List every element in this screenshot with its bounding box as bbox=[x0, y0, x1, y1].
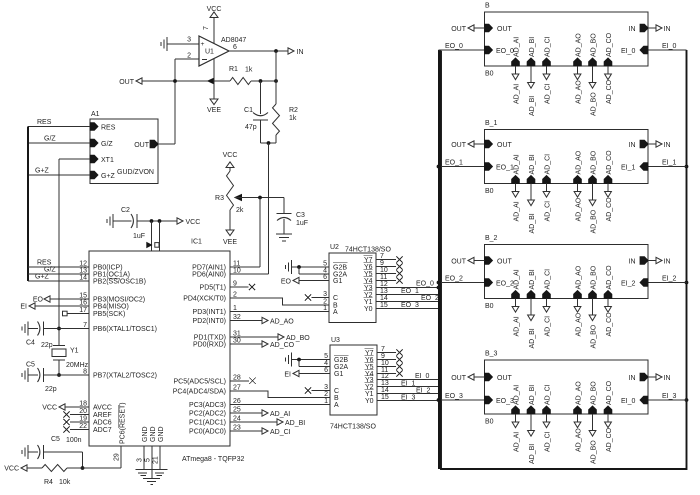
svg-text:AD_AI: AD_AI bbox=[514, 154, 521, 174]
svg-text:PD2(INT0): PD2(INT0) bbox=[193, 318, 226, 325]
svg-text:25: 25 bbox=[233, 407, 241, 414]
svg-text:24: 24 bbox=[233, 416, 241, 423]
svg-text:IN: IN bbox=[629, 26, 636, 33]
svg-text:PB4(MISO): PB4(MISO) bbox=[93, 304, 129, 311]
svg-text:B0: B0 bbox=[485, 419, 494, 426]
svg-text:AD_AO: AD_AO bbox=[576, 428, 583, 452]
svg-text:12: 12 bbox=[380, 281, 388, 288]
svg-text:EO_0: EO_0 bbox=[496, 48, 514, 55]
svg-text:C: C bbox=[333, 295, 338, 302]
svg-text:15: 15 bbox=[381, 394, 389, 401]
svg-text:2k: 2k bbox=[236, 207, 244, 214]
svg-text:VCC: VCC bbox=[42, 405, 57, 412]
svg-text:AD_AI: AD_AI bbox=[514, 269, 521, 289]
svg-text:23: 23 bbox=[233, 425, 241, 432]
svg-text:Y0: Y0 bbox=[365, 398, 374, 405]
svg-text:5: 5 bbox=[324, 353, 328, 360]
svg-text:AD_AO: AD_AO bbox=[576, 381, 583, 405]
svg-text:16: 16 bbox=[79, 300, 87, 307]
svg-text:AD_BO: AD_BO bbox=[591, 265, 598, 289]
svg-text:EI: EI bbox=[20, 304, 27, 311]
svg-text:AD_BI: AD_BI bbox=[529, 444, 536, 464]
svg-text:AD_CI: AD_CI bbox=[545, 201, 552, 222]
svg-text:EO_1: EO_1 bbox=[445, 160, 463, 167]
svg-text:EO_0: EO_0 bbox=[445, 43, 463, 50]
svg-text:PC4(ADC4/SDA): PC4(ADC4/SDA) bbox=[173, 389, 226, 396]
svg-text:A: A bbox=[333, 309, 338, 316]
svg-text:9: 9 bbox=[381, 353, 385, 360]
svg-text:EO: EO bbox=[33, 297, 44, 304]
svg-text:5: 5 bbox=[145, 458, 152, 462]
svg-text:IN: IN bbox=[664, 26, 671, 33]
svg-text:10: 10 bbox=[233, 268, 241, 275]
svg-text:EO_2: EO_2 bbox=[496, 281, 514, 288]
svg-text:AD_CO: AD_CO bbox=[606, 265, 613, 290]
svg-text:PC0(ADC0): PC0(ADC0) bbox=[189, 429, 226, 436]
svg-text:11: 11 bbox=[233, 261, 240, 268]
svg-text:PD5(T1): PD5(T1) bbox=[200, 285, 226, 292]
svg-text:EI_1: EI_1 bbox=[401, 381, 416, 388]
svg-text:13: 13 bbox=[381, 380, 389, 387]
svg-text:AD_CO: AD_CO bbox=[606, 380, 613, 405]
svg-text:OUT: OUT bbox=[497, 259, 513, 266]
svg-text:PC1(ADC1): PC1(ADC1) bbox=[189, 420, 226, 427]
svg-text:EI_2: EI_2 bbox=[662, 276, 677, 283]
svg-text:10: 10 bbox=[381, 360, 389, 367]
svg-text:IN: IN bbox=[664, 375, 671, 382]
svg-text:PC5(ADC5/SCL): PC5(ADC5/SCL) bbox=[173, 378, 226, 385]
svg-text:Y1: Y1 bbox=[365, 391, 374, 398]
svg-text:B0: B0 bbox=[485, 71, 494, 78]
svg-text:Y5: Y5 bbox=[364, 271, 373, 278]
svg-text:VEE: VEE bbox=[207, 107, 221, 114]
svg-text:B_1: B_1 bbox=[485, 120, 498, 127]
svg-text:AD_AI: AD_AI bbox=[514, 385, 521, 405]
svg-text:AD_BI: AD_BI bbox=[285, 420, 305, 427]
svg-text:IN: IN bbox=[664, 142, 671, 149]
svg-text:7: 7 bbox=[381, 346, 385, 353]
svg-text:2: 2 bbox=[187, 53, 191, 60]
svg-text:OUT: OUT bbox=[451, 259, 467, 266]
svg-text:G+Z: G+Z bbox=[101, 173, 116, 180]
svg-text:G+Z: G+Z bbox=[35, 168, 50, 175]
svg-text:ADC6: ADC6 bbox=[93, 420, 112, 427]
svg-text:2: 2 bbox=[233, 292, 237, 299]
svg-text:PD0(RXD): PD0(RXD) bbox=[193, 342, 226, 349]
svg-text:GUD/ZVON: GUD/ZVON bbox=[117, 169, 154, 176]
svg-text:19: 19 bbox=[79, 416, 87, 423]
svg-text:AD_BI: AD_BI bbox=[529, 96, 536, 116]
svg-text:3: 3 bbox=[187, 37, 191, 44]
svg-text:R2: R2 bbox=[289, 107, 298, 114]
svg-text:VCC: VCC bbox=[223, 152, 238, 159]
svg-text:IC1: IC1 bbox=[191, 239, 202, 246]
svg-text:R1: R1 bbox=[229, 66, 238, 73]
svg-text:28: 28 bbox=[233, 374, 241, 381]
svg-text:C5: C5 bbox=[51, 436, 60, 443]
svg-text:3: 3 bbox=[137, 458, 144, 462]
svg-text:13: 13 bbox=[380, 288, 388, 295]
svg-text:EO_1: EO_1 bbox=[496, 165, 514, 172]
svg-text:PD7(AIN1): PD7(AIN1) bbox=[192, 265, 226, 272]
svg-text:18: 18 bbox=[79, 401, 87, 408]
svg-text:100n: 100n bbox=[66, 437, 82, 444]
svg-text:RES: RES bbox=[101, 125, 116, 132]
svg-text:XT1: XT1 bbox=[101, 157, 114, 164]
svg-text:PB5(SCK): PB5(SCK) bbox=[93, 311, 125, 318]
svg-text:AD_AI: AD_AI bbox=[514, 316, 521, 336]
svg-text:AD_BI: AD_BI bbox=[529, 213, 536, 233]
svg-text:EI_2: EI_2 bbox=[416, 388, 431, 395]
svg-text:AD_CO: AD_CO bbox=[606, 312, 613, 337]
svg-text:B: B bbox=[485, 3, 490, 10]
svg-text:PD1(TXD): PD1(TXD) bbox=[194, 335, 226, 342]
svg-text:14: 14 bbox=[380, 295, 388, 302]
svg-text:PB6(XTAL1/TOSC1): PB6(XTAL1/TOSC1) bbox=[93, 326, 157, 333]
svg-text:AD_BI: AD_BI bbox=[529, 328, 536, 348]
svg-text:29: 29 bbox=[114, 453, 121, 461]
svg-text:G+Z: G+Z bbox=[35, 274, 50, 281]
svg-text:AD_AI: AD_AI bbox=[270, 411, 290, 418]
svg-text:AD_CI: AD_CI bbox=[545, 83, 552, 104]
svg-text:AD_BI: AD_BI bbox=[529, 37, 536, 57]
svg-text:10k: 10k bbox=[59, 479, 71, 486]
svg-text:Y3: Y3 bbox=[365, 377, 374, 384]
svg-text:AD_AO: AD_AO bbox=[270, 319, 294, 326]
svg-text:IN: IN bbox=[629, 259, 636, 266]
svg-text:4: 4 bbox=[324, 360, 328, 367]
svg-text:AD_AI: AD_AI bbox=[514, 84, 521, 104]
svg-text:EI_3: EI_3 bbox=[401, 395, 416, 402]
svg-text:AD_CI: AD_CI bbox=[545, 269, 552, 290]
svg-text:A1: A1 bbox=[91, 111, 100, 118]
svg-text:AD_AI: AD_AI bbox=[514, 37, 521, 57]
svg-text:PC3(ADC3): PC3(ADC3) bbox=[189, 402, 226, 409]
svg-text:G/Z: G/Z bbox=[44, 267, 56, 274]
svg-text:GND: GND bbox=[158, 426, 165, 442]
svg-text:22p: 22p bbox=[41, 342, 53, 349]
svg-text:OUT: OUT bbox=[451, 26, 467, 33]
svg-text:PC6(RESET): PC6(RESET) bbox=[120, 402, 127, 444]
svg-text:14: 14 bbox=[381, 387, 389, 394]
svg-text:AD_AO: AD_AO bbox=[576, 265, 583, 289]
svg-text:22: 22 bbox=[79, 423, 87, 430]
svg-text:IN: IN bbox=[664, 259, 671, 266]
svg-text:AD_CI: AD_CI bbox=[545, 36, 552, 57]
svg-text:8: 8 bbox=[83, 369, 87, 376]
svg-text:AD_BO: AD_BO bbox=[591, 92, 598, 116]
svg-text:OUT: OUT bbox=[451, 142, 467, 149]
svg-text:U2: U2 bbox=[330, 244, 339, 251]
svg-text:1: 1 bbox=[323, 305, 327, 312]
svg-text:9: 9 bbox=[233, 281, 237, 288]
svg-text:15: 15 bbox=[380, 302, 388, 309]
svg-text:Y1: Y1 bbox=[70, 348, 79, 355]
svg-text:22p: 22p bbox=[45, 386, 57, 393]
svg-text:EI_2: EI_2 bbox=[621, 281, 636, 288]
svg-text:AD_CO: AD_CO bbox=[606, 427, 613, 452]
svg-text:Y6: Y6 bbox=[365, 357, 374, 364]
svg-text:1uF: 1uF bbox=[133, 233, 145, 240]
svg-text:PB3(MOSI/OC2): PB3(MOSI/OC2) bbox=[93, 297, 145, 304]
svg-text:AD_CI: AD_CI bbox=[545, 316, 552, 337]
svg-text:EI_0: EI_0 bbox=[621, 48, 636, 55]
svg-text:EI: EI bbox=[284, 372, 291, 379]
svg-text:1: 1 bbox=[233, 305, 237, 312]
svg-text:Y4: Y4 bbox=[364, 278, 373, 285]
svg-text:B_2: B_2 bbox=[485, 235, 498, 242]
svg-text:32: 32 bbox=[233, 314, 241, 321]
svg-text:B0: B0 bbox=[485, 303, 494, 310]
svg-text:6: 6 bbox=[323, 274, 327, 281]
svg-text:OUT: OUT bbox=[134, 142, 150, 149]
svg-text:PB1(OC1A): PB1(OC1A) bbox=[93, 272, 130, 279]
svg-text:AD_BO: AD_BO bbox=[591, 440, 598, 464]
svg-text:G/Z: G/Z bbox=[101, 141, 113, 148]
svg-text:17: 17 bbox=[79, 307, 87, 314]
svg-text:OUT: OUT bbox=[497, 142, 513, 149]
svg-text:AD_AO: AD_AO bbox=[576, 80, 583, 104]
svg-text:AD_AI: AD_AI bbox=[514, 432, 521, 452]
svg-text:IN: IN bbox=[297, 49, 304, 56]
svg-text:EO_2: EO_2 bbox=[445, 276, 463, 283]
svg-text:AVCC: AVCC bbox=[93, 405, 112, 412]
svg-text:AD_AO: AD_AO bbox=[576, 150, 583, 174]
svg-text:6: 6 bbox=[233, 44, 237, 51]
svg-text:AD_BO: AD_BO bbox=[591, 150, 598, 174]
svg-text:AD8047: AD8047 bbox=[221, 37, 246, 44]
svg-text:ADC7: ADC7 bbox=[93, 427, 112, 434]
svg-text:14: 14 bbox=[79, 275, 87, 282]
svg-text:3: 3 bbox=[324, 384, 328, 391]
svg-text:G2A: G2A bbox=[334, 364, 348, 371]
svg-text:RES: RES bbox=[37, 119, 52, 126]
svg-text:G2B: G2B bbox=[334, 357, 348, 364]
svg-text:VCC: VCC bbox=[4, 466, 19, 473]
svg-text:PB0(ICP): PB0(ICP) bbox=[93, 265, 123, 272]
svg-text:AD_CO: AD_CO bbox=[606, 79, 613, 104]
svg-text:AD_CO: AD_CO bbox=[606, 197, 613, 222]
svg-text:OUT: OUT bbox=[497, 375, 513, 382]
svg-text:AD_BI: AD_BI bbox=[529, 385, 536, 405]
svg-text:21: 21 bbox=[153, 456, 160, 464]
svg-text:EO_2: EO_2 bbox=[421, 295, 439, 302]
svg-text:27: 27 bbox=[233, 385, 241, 392]
svg-text:AD_BI: AD_BI bbox=[529, 269, 536, 289]
svg-text:OUT: OUT bbox=[119, 79, 135, 86]
svg-text:PD4(XCK/T0): PD4(XCK/T0) bbox=[183, 296, 226, 303]
svg-text:G2B: G2B bbox=[333, 265, 347, 272]
svg-text:B_3: B_3 bbox=[485, 351, 498, 358]
svg-text:1k: 1k bbox=[289, 115, 297, 122]
svg-text:EI_1: EI_1 bbox=[662, 160, 677, 167]
svg-text:EO: EO bbox=[281, 279, 292, 286]
svg-text:26: 26 bbox=[233, 398, 241, 405]
svg-text:C4: C4 bbox=[26, 340, 35, 347]
svg-text:AD_CI: AD_CI bbox=[545, 384, 552, 405]
svg-text:AD_BO: AD_BO bbox=[591, 324, 598, 348]
svg-text:EO_3: EO_3 bbox=[445, 393, 463, 400]
svg-text:AD_AO: AD_AO bbox=[576, 312, 583, 336]
svg-text:EO_1: EO_1 bbox=[401, 288, 419, 295]
svg-text:VEE: VEE bbox=[223, 239, 237, 246]
svg-text:AD_AO: AD_AO bbox=[576, 197, 583, 221]
svg-text:ATmega8 - TQFP32: ATmega8 - TQFP32 bbox=[182, 456, 244, 463]
svg-text:GND: GND bbox=[150, 426, 157, 442]
svg-text:PB7(XTAL2/TOSC2): PB7(XTAL2/TOSC2) bbox=[93, 373, 157, 380]
svg-text:IN: IN bbox=[629, 375, 636, 382]
svg-text:Y6: Y6 bbox=[364, 264, 373, 271]
svg-text:C5: C5 bbox=[26, 362, 35, 369]
svg-text:12: 12 bbox=[79, 261, 87, 268]
svg-text:9: 9 bbox=[380, 260, 384, 267]
svg-text:Y5: Y5 bbox=[365, 364, 374, 371]
svg-text:12: 12 bbox=[381, 373, 389, 380]
svg-text:Y7: Y7 bbox=[364, 257, 373, 264]
svg-text:3: 3 bbox=[323, 291, 327, 298]
svg-text:7: 7 bbox=[83, 322, 87, 329]
svg-text:R3: R3 bbox=[215, 195, 224, 202]
svg-text:1k: 1k bbox=[245, 67, 253, 74]
svg-text:2: 2 bbox=[324, 391, 328, 398]
svg-text:AREF: AREF bbox=[93, 412, 112, 419]
svg-text:6: 6 bbox=[324, 367, 328, 374]
svg-text:AD_CI: AD_CI bbox=[545, 154, 552, 175]
svg-text:EI_0: EI_0 bbox=[662, 43, 677, 50]
svg-text:AD_CI: AD_CI bbox=[545, 431, 552, 452]
svg-text:Y2: Y2 bbox=[364, 292, 373, 299]
svg-text:AD_CI: AD_CI bbox=[270, 429, 291, 436]
svg-text:Y0: Y0 bbox=[364, 306, 373, 313]
svg-text:EI_0: EI_0 bbox=[621, 398, 636, 405]
svg-text:47p: 47p bbox=[245, 124, 257, 131]
svg-text:G1: G1 bbox=[333, 278, 342, 285]
svg-text:OUT: OUT bbox=[451, 375, 467, 382]
svg-text:EI_3: EI_3 bbox=[662, 393, 677, 400]
svg-text:+: + bbox=[201, 41, 205, 48]
svg-text:U1: U1 bbox=[205, 49, 214, 56]
svg-text:U3: U3 bbox=[331, 337, 340, 344]
svg-text:13: 13 bbox=[79, 268, 87, 275]
svg-text:AD_AO: AD_AO bbox=[576, 33, 583, 57]
svg-text:G/Z: G/Z bbox=[44, 136, 56, 143]
svg-text:GND: GND bbox=[142, 426, 149, 442]
svg-text:Y3: Y3 bbox=[364, 285, 373, 292]
svg-text:EI_0: EI_0 bbox=[415, 373, 430, 380]
svg-text:EO_3: EO_3 bbox=[401, 302, 419, 309]
svg-text:IN: IN bbox=[629, 142, 636, 149]
svg-text:PB2(SS/OSC1B): PB2(SS/OSC1B) bbox=[93, 279, 146, 286]
svg-text:AD_BO: AD_BO bbox=[591, 209, 598, 233]
svg-text:C: C bbox=[334, 388, 339, 395]
svg-text:OUT: OUT bbox=[497, 26, 513, 33]
svg-text:EI_1: EI_1 bbox=[621, 165, 636, 172]
svg-text:AD_BO: AD_BO bbox=[591, 33, 598, 57]
svg-text:EO_3: EO_3 bbox=[496, 398, 514, 405]
svg-text:PC2(ADC2): PC2(ADC2) bbox=[189, 411, 226, 418]
svg-text:EO_0: EO_0 bbox=[416, 281, 434, 288]
svg-text:11: 11 bbox=[380, 274, 387, 281]
svg-text:74HCT138/SO: 74HCT138/SO bbox=[330, 424, 376, 431]
svg-text:C1: C1 bbox=[244, 107, 253, 114]
svg-text:AD_CO: AD_CO bbox=[606, 150, 613, 175]
svg-text:VCC: VCC bbox=[186, 219, 201, 226]
svg-text:C3: C3 bbox=[296, 212, 305, 219]
svg-text:1: 1 bbox=[324, 398, 328, 405]
svg-text:B: B bbox=[334, 395, 339, 402]
svg-text:PD6(AIN0): PD6(AIN0) bbox=[192, 272, 226, 279]
svg-text:AD_BO: AD_BO bbox=[286, 335, 310, 342]
svg-text:AD_BO: AD_BO bbox=[591, 381, 598, 405]
svg-text:7: 7 bbox=[203, 26, 210, 30]
svg-text:A: A bbox=[334, 402, 339, 409]
svg-text:10: 10 bbox=[380, 267, 388, 274]
svg-text:PD3(INT1): PD3(INT1) bbox=[193, 309, 226, 316]
svg-text:1uF: 1uF bbox=[296, 220, 308, 227]
svg-text:7: 7 bbox=[380, 253, 384, 260]
svg-text:RES: RES bbox=[37, 260, 52, 267]
svg-text:15: 15 bbox=[79, 293, 87, 300]
svg-text:B0: B0 bbox=[485, 188, 494, 195]
svg-text:AD_BI: AD_BI bbox=[529, 154, 536, 174]
svg-text:C2: C2 bbox=[121, 207, 130, 214]
svg-text:AD_CO: AD_CO bbox=[606, 32, 613, 57]
svg-text:G1: G1 bbox=[334, 371, 343, 378]
svg-text:AD_AI: AD_AI bbox=[514, 201, 521, 221]
svg-text:20: 20 bbox=[79, 408, 87, 415]
svg-text:31: 31 bbox=[233, 331, 241, 338]
svg-text:30: 30 bbox=[233, 338, 241, 345]
svg-text:Y7: Y7 bbox=[365, 350, 374, 357]
svg-text:5: 5 bbox=[323, 261, 327, 268]
svg-text:R4: R4 bbox=[44, 479, 53, 486]
svg-text:Y1: Y1 bbox=[364, 299, 373, 306]
svg-text:Y2: Y2 bbox=[365, 384, 374, 391]
svg-text:74HCT138/SO: 74HCT138/SO bbox=[345, 247, 391, 254]
svg-text:AD_CO: AD_CO bbox=[270, 342, 295, 349]
